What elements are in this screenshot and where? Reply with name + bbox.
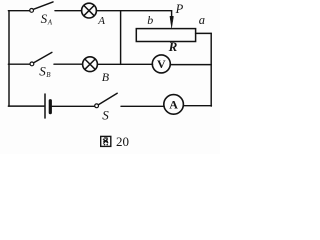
svg-text:V: V: [157, 57, 166, 71]
wire left vertical bus: [8, 11, 10, 106]
ammeter A: [164, 95, 184, 115]
svg-text:S: S: [41, 11, 48, 26]
lamp A: [82, 3, 97, 18]
wire switch SA to lamp A: [55, 10, 82, 12]
wire battery to switch S: [52, 105, 95, 107]
svg-text:R: R: [168, 39, 178, 54]
svg-text:A: A: [97, 15, 105, 27]
switch SB blade: [34, 52, 52, 62]
wire lamp A to slider corner: [96, 10, 171, 12]
switch SA pivot: [30, 9, 34, 13]
svg-text:A: A: [47, 18, 53, 26]
svg-text:B: B: [46, 71, 51, 79]
switch SA blade: [33, 2, 53, 9]
label SA: [41, 11, 53, 26]
wire lamp B to voltmeter: [97, 63, 152, 65]
svg-text:P: P: [175, 2, 184, 16]
wire switch SB to lamp B: [54, 63, 83, 65]
rheostat slider P arm: [170, 11, 173, 28]
svg-text:A: A: [169, 97, 178, 111]
wire middle row: left bus to switch SB: [8, 63, 30, 65]
caption glyph 图 (drawn): [101, 136, 111, 146]
svg-text:S: S: [39, 64, 46, 79]
wire right vertical bus: [210, 33, 212, 106]
wire ammeter to right bus: [183, 105, 211, 107]
battery positive plate: [44, 94, 46, 118]
battery negative plate: [49, 101, 52, 113]
svg-text:a: a: [199, 13, 205, 27]
svg-text:B: B: [102, 70, 110, 84]
wire voltmeter to right bus: [170, 64, 211, 66]
switch S blade: [98, 93, 117, 104]
rheostat R body: [136, 29, 195, 42]
voltmeter V: [152, 55, 170, 73]
lamp B: [83, 57, 98, 72]
wire rheostat terminal a to right bus: [196, 32, 212, 34]
svg-text:b: b: [147, 13, 153, 27]
svg-text:S: S: [102, 107, 109, 122]
wire top row: left bus to switch SA: [8, 10, 29, 12]
wire switch S to ammeter: [121, 105, 164, 107]
label SB: [39, 64, 51, 79]
wire bottom row: left bus to battery: [8, 105, 44, 107]
switch SB pivot: [30, 62, 34, 66]
wire junction drop to middle row: [120, 11, 122, 65]
switch S pivot: [95, 104, 99, 108]
svg-text:20: 20: [116, 134, 129, 149]
